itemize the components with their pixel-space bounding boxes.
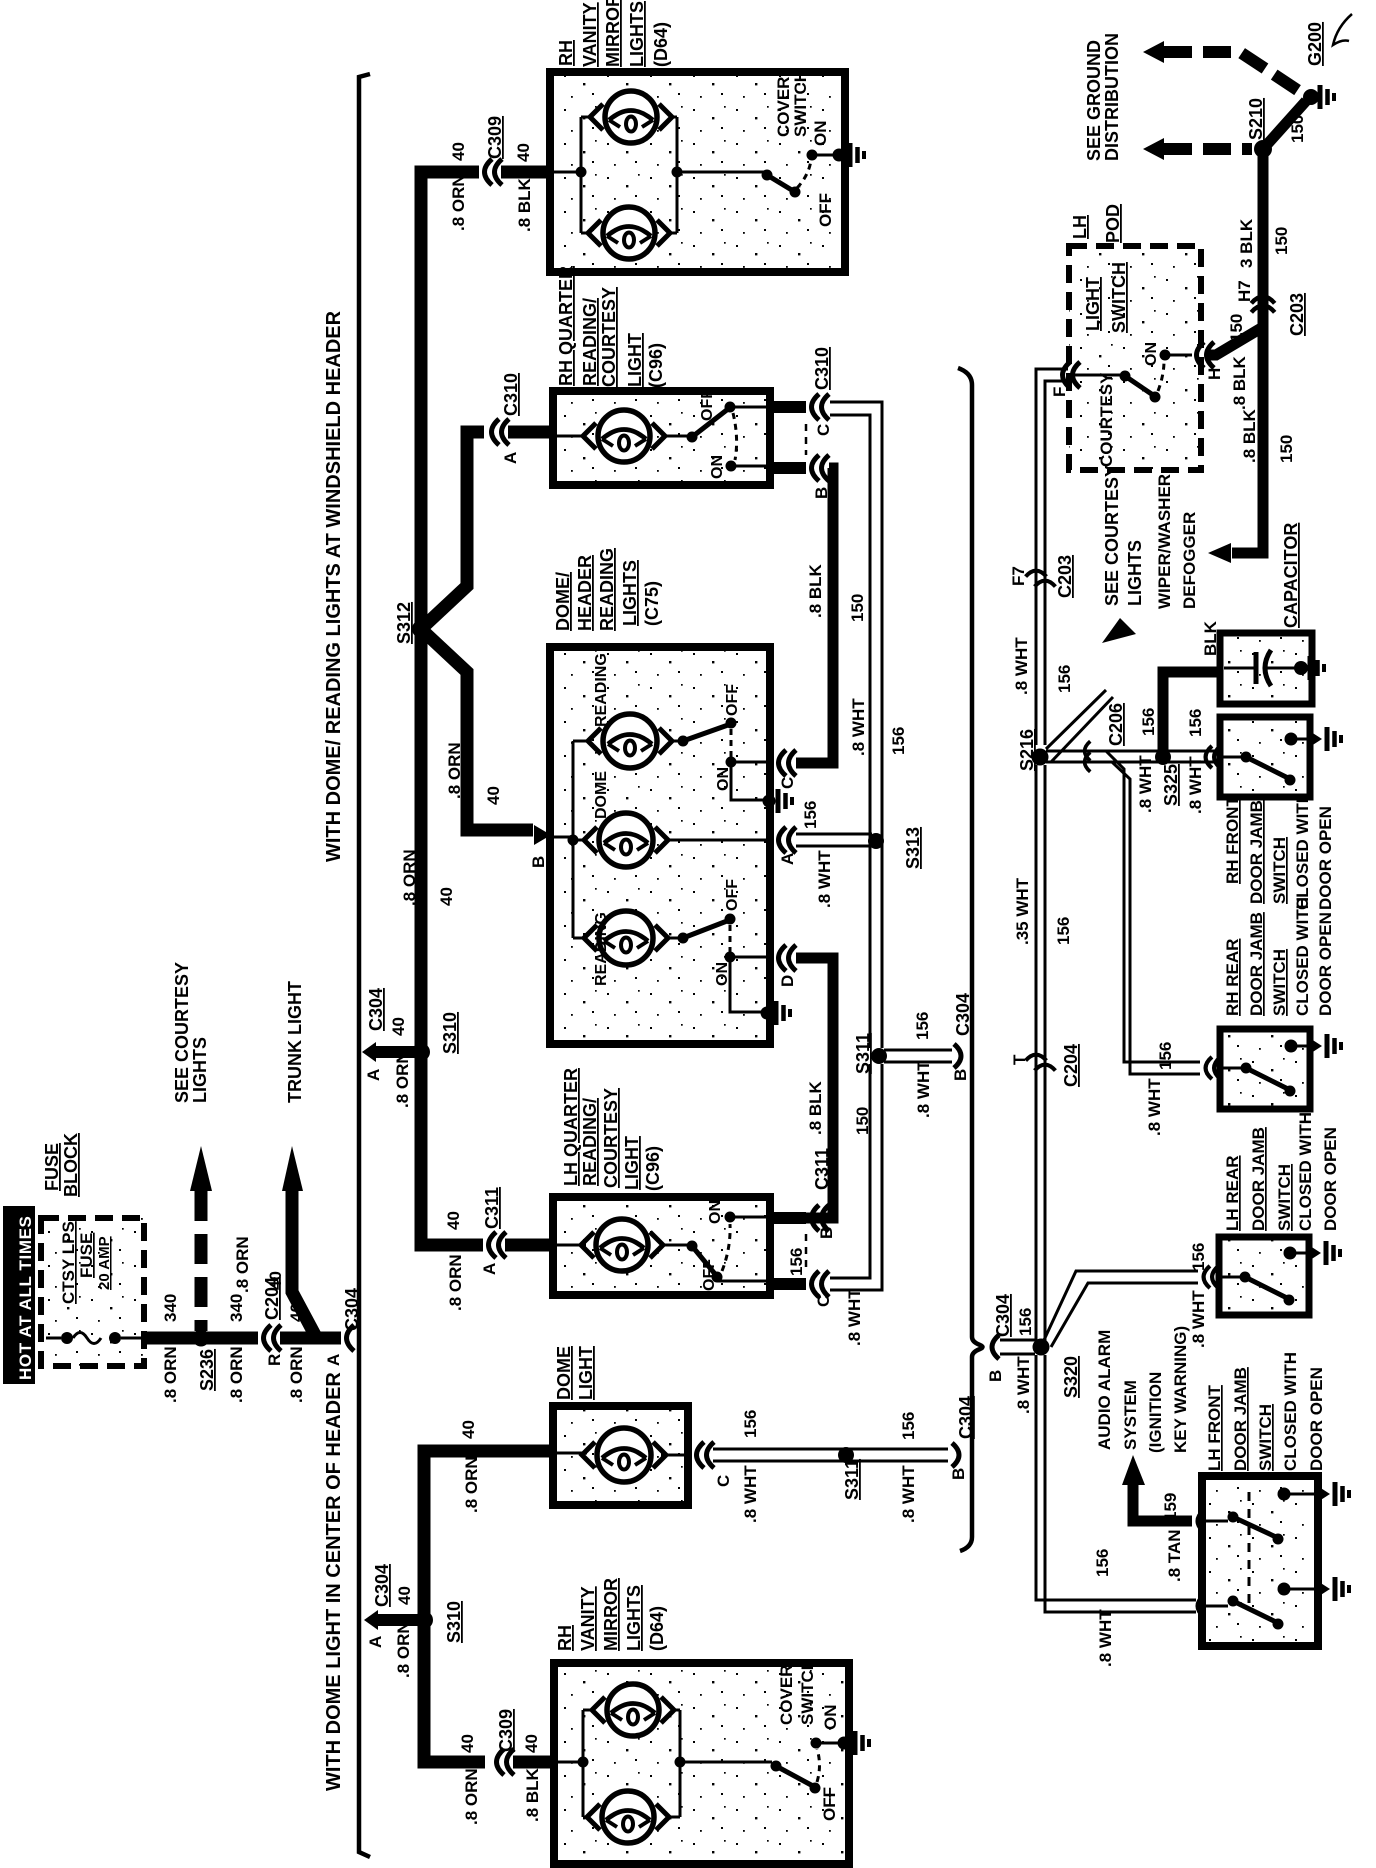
- svg-text:SWITCH: SWITCH: [791, 70, 810, 137]
- svg-text:20 AMP: 20 AMP: [96, 1236, 113, 1290]
- ground (LH front lower): [1278, 1577, 1350, 1601]
- svg-text:.8 WHT: .8 WHT: [899, 1465, 918, 1523]
- ground (RH rear switch): [1285, 1034, 1342, 1058]
- wire .8 ORN 40 main vertical (C309 corner to S312 to S310 to LH quarter): [421, 172, 483, 1245]
- svg-text:COURTESY: COURTESY: [599, 287, 619, 387]
- svg-text:.8 WHT: .8 WHT: [845, 1288, 864, 1346]
- svg-text:.8 WHT: .8 WHT: [1186, 756, 1205, 814]
- svg-text:DOOR OPEN: DOOR OPEN: [1316, 806, 1335, 910]
- hot at all times banner: [3, 1206, 35, 1384]
- svg-text:DOME/: DOME/: [553, 572, 573, 631]
- svg-text:40: 40: [266, 1271, 285, 1290]
- section bracket line: [359, 74, 370, 1857]
- svg-text:.8 ORN: .8 ORN: [227, 1346, 246, 1403]
- svg-text:ON: ON: [714, 962, 731, 986]
- handwritten mark: [1333, 14, 1352, 45]
- labels 3 BLK 150: [1237, 218, 1291, 268]
- svg-text:SYSTEM: SYSTEM: [1121, 1380, 1140, 1450]
- svg-text:F7: F7: [1009, 566, 1028, 586]
- svg-text:.8 WHT: .8 WHT: [1145, 1078, 1164, 1136]
- cover switch: [762, 150, 835, 198]
- svg-text:WIPER/WASHER,: WIPER/WASHER,: [1155, 469, 1174, 609]
- wire .8 WHT 156 S320 to LH front switch (hollow): [1036, 1355, 1196, 1600]
- RH rear door jamb switch box: [1220, 1029, 1310, 1109]
- RH quarter switch: [687, 402, 769, 472]
- wire .8 TAN 159 to LH front switch: [1133, 1484, 1192, 1521]
- svg-text:S311: S311: [842, 1459, 862, 1500]
- svg-text:VANITY: VANITY: [580, 2, 600, 67]
- svg-text:(C96): (C96): [646, 343, 666, 388]
- svg-text:C204: C204: [1061, 1044, 1081, 1087]
- linkage dash: [1248, 1492, 1251, 1610]
- svg-text:.8 ORN: .8 ORN: [287, 1346, 306, 1403]
- svg-text:C304: C304: [956, 1396, 976, 1439]
- svg-text:(C96): (C96): [643, 1146, 663, 1191]
- svg-text:40: 40: [522, 1734, 541, 1753]
- labels around S325: [1136, 709, 1205, 814]
- svg-text:SEE COURTESY: SEE COURTESY: [172, 962, 192, 1103]
- svg-text:DOME: DOME: [554, 1346, 574, 1400]
- svg-text:LH REAR: LH REAR: [1223, 1155, 1242, 1231]
- svg-text:(D64): (D64): [647, 1606, 667, 1651]
- LH rear door jamb switch labels: [1223, 1112, 1340, 1231]
- svg-text:RH QUARTER: RH QUARTER: [556, 266, 576, 386]
- svg-text:KEY WARNING): KEY WARNING): [1171, 1326, 1190, 1453]
- svg-text:C311: C311: [812, 1148, 832, 1190]
- LH front door jamb switch box: [1202, 1476, 1318, 1646]
- svg-text:LIGHTS: LIGHTS: [620, 560, 640, 626]
- svg-text:VANITY: VANITY: [578, 1586, 598, 1651]
- reading switch (bottom): [667, 914, 770, 1013]
- labels 156 .8 WHT: [787, 1248, 864, 1346]
- svg-text:(C75): (C75): [642, 581, 662, 626]
- labels 156 .8 WHT: [1189, 1243, 1208, 1348]
- svg-text:C206: C206: [1106, 703, 1126, 746]
- dome lamp wire to pin A: [667, 839, 773, 842]
- svg-text:340: 340: [227, 1294, 246, 1322]
- svg-text:S313: S313: [903, 827, 923, 869]
- svg-text:LIGHTS: LIGHTS: [627, 1, 647, 67]
- LH rear door jamb switch box: [1219, 1237, 1309, 1315]
- svg-text:C304: C304: [993, 1294, 1013, 1337]
- svg-text:CTSY LPS: CTSY LPS: [59, 1221, 78, 1304]
- splice S325: [1155, 749, 1181, 806]
- svg-text:SEE COURTESY: SEE COURTESY: [1102, 465, 1122, 606]
- svg-text:H: H: [1205, 368, 1224, 380]
- svg-text:OFF: OFF: [724, 879, 741, 911]
- junction dots: [576, 167, 587, 178]
- connector C204 crossing (T): [1010, 1044, 1081, 1087]
- light switch labels: [1083, 262, 1129, 467]
- wire .8 BLK 150 C75-C up (drawn with C310-B) / labels near C75 pin C: [849, 698, 908, 756]
- svg-text:40: 40: [449, 142, 468, 161]
- wire stub to C311 pin C: [768, 1278, 806, 1290]
- vanity bus wires: [556, 1710, 772, 1817]
- svg-text:156: 156: [1054, 917, 1073, 945]
- wire .8 WHT 156 S311 to C304-B (hollow): [884, 1049, 952, 1052]
- splice S310 (bottom): [415, 1601, 464, 1643]
- wire .8 WHT 156 C311-C to S311 (hollow): [830, 1064, 870, 1278]
- connector pin H: [1197, 342, 1225, 380]
- svg-text:CLOSED WITH: CLOSED WITH: [1281, 1352, 1300, 1471]
- svg-text:COURTESY: COURTESY: [1097, 372, 1116, 467]
- connector C310 pin B: [812, 455, 832, 499]
- svg-text:B: B: [986, 1370, 1005, 1382]
- splice S313: [868, 827, 923, 869]
- connector pin (LH front switch lower): [1198, 1595, 1204, 1617]
- arrowhead into C75 pin B: [534, 825, 551, 845]
- svg-text:.8 ORN: .8 ORN: [233, 1236, 252, 1293]
- LH pod labels: [1070, 204, 1123, 243]
- svg-text:S310: S310: [440, 1012, 460, 1054]
- switch labels: [714, 879, 741, 986]
- connector C304 pin B (bottom): [949, 1396, 976, 1480]
- svg-text:RH: RH: [555, 1625, 575, 1651]
- svg-text:SWITCH: SWITCH: [798, 1658, 817, 1725]
- svg-text:MIRROR: MIRROR: [601, 1578, 621, 1651]
- svg-text:DOOR JAMB: DOOR JAMB: [1247, 800, 1266, 904]
- cover switch labels: [777, 1658, 840, 1821]
- arrowhead C304 pin A: [362, 1042, 376, 1062]
- connector C304 pin A (main feed): [324, 1288, 362, 1366]
- capacitor box: [1220, 633, 1312, 704]
- svg-text:DOME: DOME: [593, 771, 610, 819]
- svg-text:LH: LH: [1070, 215, 1090, 239]
- svg-text:A: A: [366, 1636, 385, 1648]
- svg-text:FUSE: FUSE: [42, 1143, 62, 1191]
- svg-text:DOOR JAMB: DOOR JAMB: [1247, 912, 1266, 1016]
- svg-text:CLOSED WITH: CLOSED WITH: [1293, 791, 1312, 910]
- svg-text:A: A: [778, 853, 797, 865]
- connector pin F: [1050, 362, 1080, 397]
- connector pin (LH rear switch): [1204, 1266, 1210, 1288]
- svg-text:40: 40: [395, 1586, 414, 1605]
- dashed trunk wire 2 to ground distribution: [1143, 138, 1252, 160]
- svg-text:RH: RH: [556, 40, 576, 66]
- svg-text:A: A: [324, 1354, 343, 1366]
- dome light labels: [554, 1346, 596, 1400]
- connector tie dash: [805, 424, 808, 455]
- labels .35 WHT 156: [1013, 877, 1073, 945]
- wire stub to C311 pin B: [768, 1212, 806, 1224]
- connector pin (RH front switch): [1206, 746, 1212, 768]
- switch mechanism upper: [1204, 1512, 1284, 1545]
- svg-text:ON: ON: [715, 767, 732, 791]
- switch mechanism: [1221, 1272, 1295, 1306]
- svg-text:.8 ORN: .8 ORN: [445, 742, 464, 799]
- splice S310: [412, 1012, 460, 1061]
- splice S216: [1017, 729, 1049, 771]
- svg-text:C309: C309: [496, 1709, 516, 1752]
- RH vanity mirror lights box: [550, 72, 845, 272]
- svg-text:.8 BLK: .8 BLK: [806, 563, 825, 618]
- wire 3 BLK 150 S210 down through C203: [1232, 155, 1263, 553]
- svg-text:150: 150: [1288, 115, 1307, 143]
- svg-text:.8 TAN: .8 TAN: [1165, 1529, 1184, 1582]
- svg-text:156: 156: [899, 1412, 918, 1440]
- junction dots: [578, 1757, 589, 1768]
- svg-text:RH FRONT: RH FRONT: [1223, 796, 1242, 884]
- connector C204 pin R: [262, 1277, 284, 1366]
- svg-text:LIGHT: LIGHT: [576, 1346, 596, 1400]
- dome light box: [553, 1406, 688, 1505]
- svg-text:156: 156: [1189, 1243, 1208, 1271]
- svg-text:.8 ORN: .8 ORN: [161, 1346, 180, 1403]
- connector pin (LH front switch upper): [1198, 1510, 1204, 1532]
- LH quarter reading/courtesy light (C96) labels: [561, 1068, 663, 1191]
- switch mechanism: [1222, 752, 1296, 786]
- splice S320: [1033, 1339, 1082, 1399]
- svg-text:SWITCH: SWITCH: [1270, 837, 1289, 904]
- connector C311 pin C: [812, 1271, 834, 1307]
- svg-text:LH QUARTER: LH QUARTER: [561, 1068, 581, 1186]
- svg-text:156: 156: [1186, 709, 1205, 737]
- svg-text:A: A: [364, 1069, 383, 1081]
- svg-text:156: 156: [801, 801, 820, 829]
- wiper/washer defogger arrow: [1208, 543, 1231, 563]
- wire .8 WHT 156 pin A to S313 (hollow): [796, 833, 872, 836]
- connector C203 crossing (F7): [1009, 555, 1075, 598]
- wiper/washer defogger labels: [1155, 469, 1199, 609]
- svg-text:T: T: [1010, 1054, 1029, 1065]
- svg-text:DOOR JAMB: DOOR JAMB: [1249, 1127, 1268, 1231]
- vanity lamp 1 (bottom): [592, 1684, 674, 1736]
- switch mechanism: [1222, 1063, 1296, 1097]
- connector C309: [485, 116, 506, 185]
- svg-text:.8 ORN: .8 ORN: [446, 1254, 465, 1311]
- trunk light arrow: [282, 1146, 303, 1191]
- labels 156 .8 WHT: [801, 801, 834, 908]
- svg-text:FUSE: FUSE: [77, 1233, 96, 1278]
- svg-text:DOOR OPEN: DOOR OPEN: [1321, 1127, 1340, 1231]
- audio alarm arrow: [1122, 1455, 1145, 1485]
- arrowhead C304 pin A: [364, 1610, 378, 1630]
- svg-text:.8 ORN: .8 ORN: [400, 849, 419, 906]
- connector C304 pin B: [951, 993, 973, 1081]
- svg-text:.8 WHT: .8 WHT: [815, 850, 834, 908]
- vanity lamp bus wires: [552, 117, 765, 233]
- svg-text:H7: H7: [1235, 280, 1254, 302]
- svg-text:40: 40: [437, 887, 456, 906]
- svg-text:R: R: [265, 1354, 284, 1366]
- svg-text:.8 WHT: .8 WHT: [914, 1060, 933, 1118]
- RH vanity mirror lights (D64) labels (bottom): [555, 1578, 667, 1651]
- svg-text:S310: S310: [444, 1601, 464, 1643]
- svg-text:B: B: [817, 1227, 836, 1239]
- svg-text:.35 WHT: .35 WHT: [1013, 877, 1032, 945]
- light switch dashed box: [1069, 246, 1201, 470]
- switch labels OFF ON: [699, 389, 726, 479]
- svg-text:AUDIO ALARM: AUDIO ALARM: [1095, 1330, 1114, 1450]
- svg-text:.8 BLK: .8 BLK: [1230, 355, 1249, 410]
- ground (LH rear switch): [1284, 1241, 1341, 1265]
- svg-text:HOT AT ALL TIMES: HOT AT ALL TIMES: [16, 1216, 35, 1380]
- vanity lamp 2 (bottom): [587, 1791, 669, 1843]
- labels 159 .8 TAN: [1161, 1493, 1184, 1582]
- svg-text:40: 40: [444, 1211, 463, 1230]
- wire C310-A to box: [508, 426, 554, 439]
- wire C311-A to box: [505, 1239, 554, 1252]
- svg-text:.8 WHT: .8 WHT: [1096, 1609, 1115, 1667]
- wire stub to C310 pin C: [768, 401, 806, 413]
- svg-text:LIGHTS: LIGHTS: [1125, 540, 1145, 606]
- svg-text:.8 WHT: .8 WHT: [1189, 1290, 1208, 1348]
- lamp feed wires: [555, 1244, 689, 1247]
- svg-text:.8 WHT: .8 WHT: [1136, 755, 1155, 813]
- svg-text:B: B: [951, 1069, 970, 1081]
- wire .8 ORN 40 to trunk light: [292, 1189, 315, 1335]
- see courtesy lights label: [172, 962, 210, 1103]
- svg-text:C203: C203: [1055, 555, 1075, 598]
- dome/header reading lights (C75) labels: [553, 548, 662, 631]
- svg-text:B: B: [949, 1468, 968, 1480]
- svg-text:WITH DOME LIGHT IN CENTER OF H: WITH DOME LIGHT IN CENTER OF HEADER: [323, 1372, 345, 1791]
- svg-text:OFF: OFF: [816, 193, 835, 227]
- svg-text:C309: C309: [485, 116, 505, 159]
- wire 3 BLK S210 to G200: [1263, 101, 1306, 149]
- lamp feed wires: [555, 1453, 686, 1455]
- labels .8 WHT 156: [1012, 637, 1074, 695]
- wire .8 WHT 156 S313 to S311 (hollow, continues): [869, 1049, 872, 1052]
- svg-text:LIGHTS: LIGHTS: [624, 1585, 644, 1651]
- svg-text:40: 40: [514, 143, 533, 162]
- LH quarter switch: [687, 1212, 769, 1283]
- svg-text:READING/: READING/: [580, 298, 600, 386]
- fuse block label: [42, 1133, 81, 1197]
- svg-text:.8 BLK: .8 BLK: [523, 1767, 542, 1822]
- LH quarter light box: [553, 1197, 770, 1295]
- connector C309 (bottom): [496, 1709, 516, 1775]
- labels 156 .8 WHT: [1093, 1549, 1115, 1667]
- svg-text:DOOR JAMB: DOOR JAMB: [1231, 1367, 1250, 1471]
- svg-text:READING: READING: [597, 548, 617, 631]
- svg-text:A: A: [501, 452, 520, 464]
- splice S236: [193, 1330, 218, 1392]
- svg-text:READING: READING: [593, 653, 610, 727]
- svg-text:BLOCK: BLOCK: [61, 1133, 81, 1197]
- svg-text:3 BLK: 3 BLK: [1237, 218, 1256, 268]
- svg-text:HEADER: HEADER: [575, 555, 595, 631]
- RH vanity mirror lights (D64) labels: [556, 0, 671, 67]
- wire .8 ORN 340 fuse to C204: [142, 1332, 258, 1345]
- svg-text:SWITCH: SWITCH: [1270, 949, 1289, 1016]
- svg-text:LIGHT: LIGHT: [622, 1136, 642, 1190]
- wire .35 WHT 156 S216 down to S320 (hollow): [1035, 765, 1038, 1341]
- splice S210: [1246, 98, 1272, 158]
- fuse block dashed box: [41, 1218, 144, 1366]
- connector pin (RH rear switch): [1206, 1057, 1212, 1079]
- vanity lamp 2: [588, 207, 670, 259]
- ground (RH front switch): [1285, 727, 1342, 751]
- splice S311 (bottom): [838, 1447, 862, 1500]
- svg-text:D: D: [778, 975, 797, 987]
- svg-text:OFF: OFF: [699, 389, 716, 421]
- reading lamp (top): [588, 653, 672, 768]
- see ground distribution labels: [1084, 33, 1122, 161]
- wire .8 WHT 156 branch to RH rear switch (hollow): [1106, 751, 1200, 1062]
- capacitor symbol: [1224, 650, 1295, 686]
- wire .8 WHT 156 dome-C to S311 (hollow): [713, 1448, 948, 1451]
- svg-text:156: 156: [1055, 665, 1074, 693]
- svg-text:DISTRIBUTION: DISTRIBUTION: [1102, 33, 1122, 161]
- vanity lamp 1: [590, 91, 672, 143]
- connector C311 pin A: [480, 1187, 506, 1275]
- svg-text:40: 40: [484, 786, 503, 805]
- connector C75 pin C: [778, 750, 797, 789]
- svg-text:156: 156: [1016, 1308, 1035, 1336]
- wire C309 to RH vanity box: [501, 166, 552, 179]
- svg-text:CLOSED WITH: CLOSED WITH: [1293, 897, 1312, 1016]
- svg-text:C: C: [814, 1295, 833, 1307]
- wire .8 WHT 156 from C310-C (hollow): [830, 402, 882, 1048]
- ground (LH front upper): [1278, 1482, 1350, 1506]
- svg-text:ON: ON: [1143, 342, 1160, 366]
- connector C203 on 3 BLK: [1227, 280, 1307, 342]
- svg-text:S320: S320: [1061, 1356, 1081, 1398]
- svg-text:.8 ORN: .8 ORN: [462, 1768, 481, 1825]
- wire stub to C310 pin B: [768, 462, 806, 474]
- svg-text:S216: S216: [1017, 729, 1037, 771]
- labels C304 40 A .8 ORN: [366, 1564, 414, 1678]
- labels C304 A 40 .8 ORN at S310 stub: [364, 988, 412, 1108]
- svg-text:MIRROR: MIRROR: [603, 0, 623, 67]
- connector C75 pin D: [778, 945, 797, 987]
- svg-text:C311: C311: [482, 1187, 502, 1229]
- svg-text:ON: ON: [707, 1200, 724, 1224]
- svg-text:A: A: [480, 1263, 499, 1275]
- svg-text:C: C: [814, 424, 833, 436]
- connector dome pin C: [697, 1442, 734, 1487]
- svg-text:.8 BLK: .8 BLK: [1240, 408, 1259, 463]
- wire .8 ORN 40 bottom feed: [424, 1451, 553, 1762]
- svg-text:156: 156: [1156, 1042, 1175, 1070]
- svg-text:150: 150: [1272, 227, 1291, 255]
- svg-text:C304: C304: [372, 1564, 392, 1607]
- svg-text:READING/: READING/: [580, 1098, 600, 1186]
- fuse CTSY LPS 20 AMP labels: [59, 1221, 113, 1304]
- svg-text:.8 BLK: .8 BLK: [806, 1080, 825, 1135]
- svg-text:150: 150: [1227, 314, 1246, 342]
- svg-text:.8 ORN: .8 ORN: [449, 174, 468, 231]
- svg-text:TRUNK LIGHT: TRUNK LIGHT: [285, 981, 305, 1103]
- svg-text:156: 156: [913, 1012, 932, 1040]
- svg-text:C203: C203: [1287, 293, 1307, 336]
- labels 156 .8 WHT: [913, 1012, 933, 1118]
- switch mechanism lower: [1204, 1596, 1284, 1630]
- svg-text:WITH DOME/ READING LIGHTS AT W: WITH DOME/ READING LIGHTS AT WINDSHIELD …: [323, 310, 345, 862]
- svg-text:OFF: OFF: [820, 1787, 839, 1821]
- dashed trunk wire 1 to ground distribution: [1143, 41, 1305, 95]
- svg-text:.8 ORN: .8 ORN: [393, 1051, 412, 1108]
- svg-text:40: 40: [459, 1420, 478, 1439]
- splice S311: [853, 1033, 887, 1074]
- lamp feed wires: [555, 435, 689, 438]
- svg-text:C304: C304: [366, 988, 386, 1031]
- labels 156 .8 WHT: [1145, 1042, 1175, 1136]
- ground (C75 lower): [761, 1007, 774, 1020]
- svg-text:(D64): (D64): [651, 22, 671, 67]
- svg-text:C310: C310: [812, 347, 832, 390]
- dome lamp (middle): [584, 771, 668, 867]
- svg-text:CLOSED WITH: CLOSED WITH: [1296, 1112, 1315, 1231]
- svg-text:150: 150: [848, 594, 867, 622]
- connector C310 pin A: [492, 373, 522, 464]
- ground (cover switch bottom): [838, 1737, 851, 1750]
- RH rear door jamb switch labels: [1223, 897, 1335, 1016]
- svg-text:LH FRONT: LH FRONT: [1205, 1384, 1224, 1471]
- svg-text:(IGNITION: (IGNITION: [1146, 1372, 1165, 1453]
- svg-text:.8 WHT: .8 WHT: [1012, 637, 1031, 695]
